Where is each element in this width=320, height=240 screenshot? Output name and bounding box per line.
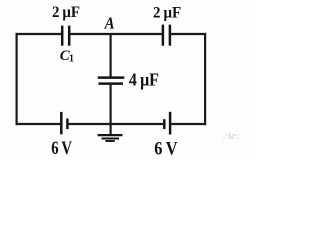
wire bottom-right segment: [171, 123, 206, 125]
capacitor C1 (2 uF, top left): [62, 26, 69, 46]
svg-text:4 μF: 4 μF: [129, 69, 159, 89]
ground: [98, 135, 123, 141]
wire left side: [16, 33, 18, 125]
wire right side: [204, 33, 206, 125]
wire bottom-middle segment: [69, 123, 164, 125]
battery B2 (6 V, bottom right): [164, 112, 170, 135]
wire top-middle segment (node A to right capacitor): [70, 33, 161, 35]
svg-text:1: 1: [69, 54, 74, 65]
wire middle branch upper (node A down to 4uF): [109, 34, 111, 77]
capacitor C2 (2 uF, top right): [163, 25, 170, 46]
wire top-right segment: [171, 33, 206, 35]
svg-text:.·iг·:: .·iг·:: [223, 131, 241, 142]
svg-text:A: A: [104, 14, 115, 33]
capacitor C3 (4 uF, middle branch): [98, 78, 125, 84]
battery B1 (6 V, bottom left): [61, 112, 67, 134]
svg-text:2 μF: 2 μF: [153, 5, 181, 22]
svg-text:2 μF: 2 μF: [52, 4, 80, 21]
wire top-left segment: [16, 33, 61, 35]
wire middle branch lower (4uF down to ground): [109, 85, 111, 135]
svg-text:6 V: 6 V: [51, 138, 72, 158]
wire bottom-left segment: [16, 123, 61, 125]
svg-text:6 V: 6 V: [154, 138, 177, 158]
